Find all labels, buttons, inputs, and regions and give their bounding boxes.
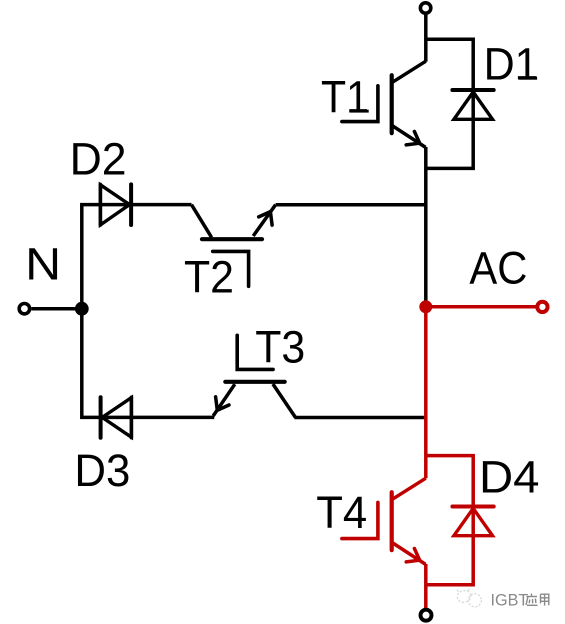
svg-text:T3: T3 — [255, 322, 305, 373]
svg-text:IGBT: IGBT — [491, 592, 529, 610]
svg-text:D3: D3 — [74, 445, 130, 496]
svg-text:D1: D1 — [484, 39, 539, 90]
svg-text:T2: T2 — [184, 252, 234, 303]
svg-text:AC: AC — [469, 243, 527, 294]
svg-text:T4: T4 — [316, 487, 367, 538]
svg-text:T1: T1 — [321, 72, 369, 123]
svg-text:N: N — [25, 239, 61, 290]
svg-text:D4: D4 — [479, 452, 540, 503]
svg-text:D2: D2 — [70, 134, 127, 185]
